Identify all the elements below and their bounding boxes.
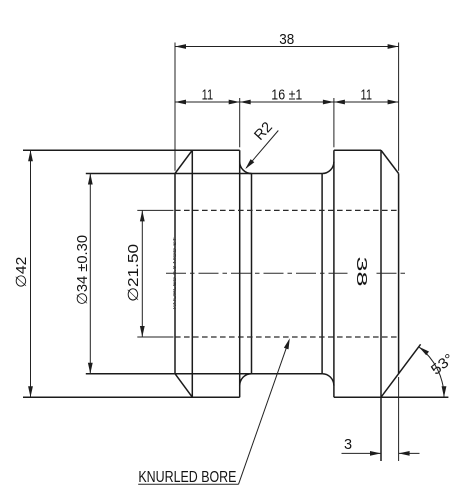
dimension Ø34 arrows bbox=[88, 174, 93, 185]
svg-text:∅21.50: ∅21.50 bbox=[126, 244, 142, 302]
part chamfer edge right (x=381) + dim 3 extension bbox=[380, 150, 382, 461]
svg-text:∅42: ∅42 bbox=[14, 257, 30, 288]
dimension 38 arrow left bbox=[175, 44, 186, 49]
centerline right of 38 text bbox=[377, 272, 407, 274]
svg-text:KNURLED BORE: KNURLED BORE bbox=[138, 469, 236, 486]
angle 53° arc bbox=[419, 347, 444, 397]
angle 53° arrow at chamfer bbox=[419, 347, 429, 356]
centerline left of 38 text bbox=[166, 272, 348, 274]
dimension 38 arrow right bbox=[388, 44, 399, 49]
dimension Ø42 line bbox=[30, 150, 32, 397]
dimension 3 line left stub bbox=[342, 452, 382, 454]
part chamfer edge left (x=192.3) bbox=[191, 150, 193, 397]
svg-text:16 ±1: 16 ±1 bbox=[271, 87, 302, 103]
part flange bottom-left edge + Ø42 extension bbox=[23, 396, 240, 398]
part fillet tangent edge left (x=251.5) bbox=[251, 174, 253, 374]
dimension Ø21.50 extension bottom bbox=[137, 336, 173, 338]
dimension 16±1 arrows bbox=[240, 100, 251, 105]
part chamfer bottom-left bbox=[175, 374, 192, 398]
dimension Ø42 arrows bbox=[28, 150, 33, 161]
label KNURLED BORE leader bbox=[239, 340, 290, 484]
svg-text:38: 38 bbox=[353, 257, 369, 287]
hidden bore line top bbox=[175, 209, 399, 211]
part right face bbox=[398, 174, 400, 374]
part groove top edge + Ø34 extension bbox=[86, 173, 322, 175]
part fillet arc bottom-right bbox=[322, 374, 334, 386]
part fillet arc bottom-left bbox=[240, 374, 252, 386]
dimension 3 line right stub bbox=[399, 452, 420, 454]
label KNURLED BORE arrow bbox=[284, 338, 290, 349]
svg-text:∅34 ±0.30: ∅34 ±0.30 bbox=[75, 235, 91, 305]
part flange top-left edge + Ø42 extension bbox=[23, 149, 240, 151]
dimension 11 left arrows bbox=[175, 100, 186, 105]
hidden bore line bottom bbox=[175, 336, 399, 338]
dimension Ø21.50 extension top bbox=[137, 209, 173, 211]
dimension Ø34 line bbox=[89, 174, 91, 374]
dimension 3 arrow left bbox=[370, 451, 381, 456]
dimension 3 extension line right face (x=398.6) bbox=[398, 377, 400, 461]
radius R2 leader line bbox=[246, 131, 278, 168]
dimension 38 extension line left (x=175) bbox=[174, 43, 176, 171]
part chamfer bottom-right + 53° extension line bbox=[381, 344, 421, 397]
part step left (x=239.7) bbox=[239, 150, 241, 397]
svg-text:11: 11 bbox=[361, 87, 373, 103]
part flange bottom-right edge + 53° extension bbox=[334, 396, 449, 398]
radius R2 arrow bbox=[245, 159, 254, 169]
part fillet arc top-left bbox=[240, 162, 252, 174]
dimension 11 right arrows bbox=[334, 100, 345, 105]
part chamfer top-left bbox=[175, 150, 192, 173]
dimension row2 extension line (x=333.9) bbox=[333, 98, 335, 147]
part groove bottom edge + Ø34 extension bbox=[86, 373, 322, 375]
part fillet tangent edge right (x=322.1) bbox=[321, 174, 323, 374]
part chamfer top-right bbox=[381, 150, 399, 173]
dimension row2 extension line (x=239.7) bbox=[239, 98, 241, 147]
dimension 38 extension line right (x=398.6) bbox=[398, 43, 400, 171]
dimension row2 line bbox=[175, 101, 399, 103]
label KNURLED BORE underline bbox=[138, 483, 238, 485]
part left face bbox=[174, 174, 176, 374]
part flange top-right edge bbox=[334, 149, 381, 151]
svg-text:38: 38 bbox=[279, 32, 294, 48]
svg-text:11: 11 bbox=[202, 87, 214, 103]
dimension 38 line bbox=[175, 46, 399, 48]
dimension Ø21.50 line bbox=[141, 210, 143, 337]
dimension Ø21.50 arrows bbox=[140, 210, 145, 221]
part step right (x=333.9) bbox=[333, 150, 335, 397]
angle 53° arrow at horizontal bbox=[442, 386, 447, 397]
dimension 3 arrow right bbox=[399, 451, 410, 456]
svg-text:3: 3 bbox=[344, 437, 352, 453]
part fillet arc top-right bbox=[322, 162, 334, 174]
svg-text:KNURLED 0.8 MOD ST: KNURLED 0.8 MOD ST bbox=[172, 237, 177, 310]
